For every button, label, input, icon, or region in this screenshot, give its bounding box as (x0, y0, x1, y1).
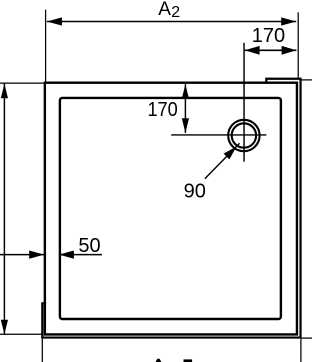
dimension 170 vertical: down arrowhead (182, 118, 189, 133)
drain leader arrowhead (224, 147, 237, 160)
left height dimension: up arrowhead (1, 84, 8, 99)
dimension 170 vertical: dimension line (184, 84, 186, 133)
svg-text:A: A (158, 0, 171, 20)
tray outer outline (45, 83, 297, 335)
drain outer circle (228, 120, 259, 151)
bottom dimension (cut off): label top fragment A (156, 359, 162, 362)
drain vertical centerline (also extension for top 170 dim) (243, 43, 245, 162)
dimension 50: right arrowhead (pointing left) (59, 251, 74, 259)
left height dimension: dimension line (3, 84, 5, 335)
dimension A2: extension line right (297, 12, 299, 78)
bottom right corner: extension line to right edge (301, 337, 312, 339)
svg-text:50: 50 (78, 235, 100, 257)
svg-text:90: 90 (184, 180, 206, 202)
dimension 170 top: right arrowhead (282, 46, 297, 55)
left height dimension: bottom extension line (0, 333, 42, 335)
dimension A2: right arrowhead (281, 17, 296, 25)
tray rim lower edge (offset outline, visible right/bottom + corner tabs) (42, 79, 300, 338)
svg-text:170: 170 (252, 25, 285, 47)
left height dimension: down arrowhead (1, 320, 8, 335)
dimension 170 vertical: up arrowhead (182, 84, 189, 99)
drain inner circle (232, 123, 256, 147)
dimension 170 top: dimension line (245, 49, 297, 51)
dimension 170 top: left arrowhead (245, 46, 260, 55)
drain leader line (205, 143, 240, 179)
dimension A2: dimension line (47, 21, 296, 23)
dimension 50: left dimension line (0, 254, 44, 256)
dimension 50: left arrowhead (pointing right) (29, 251, 44, 259)
left height dimension: top extension line (0, 82, 44, 84)
svg-text:2: 2 (171, 4, 180, 21)
dimension A2: extension line left (45, 10, 47, 82)
svg-text:170: 170 (147, 99, 177, 121)
tray floor (inner rounded square) (60, 98, 281, 319)
dimension 50: right tail line (59, 254, 102, 256)
drain horizontal centerline (171, 134, 266, 136)
bottom dimension (cut off): left extension line (41, 339, 43, 362)
bottom dimension (cut off): label top fragment 1 (184, 359, 193, 362)
dimension A2: left arrowhead (47, 17, 62, 25)
top right corner: extension line to right edge (301, 79, 312, 81)
bottom dimension (cut off): right extension line (300, 339, 302, 362)
